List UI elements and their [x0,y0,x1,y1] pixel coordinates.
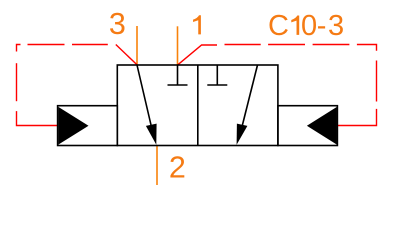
svg-text:2: 2 [169,151,186,185]
svg-text:-: - [317,10,327,42]
svg-text:0: 0 [301,10,317,42]
svg-text:3: 3 [328,10,344,42]
svg-text:C: C [268,10,289,42]
svg-text:3: 3 [109,7,126,41]
